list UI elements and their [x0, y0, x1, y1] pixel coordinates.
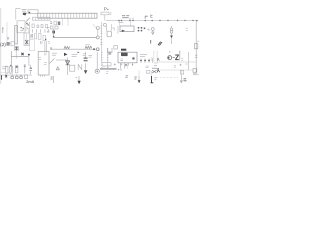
svg-text:(2): (2): [0, 42, 6, 48]
svg-text:2mA: 2mA: [26, 80, 34, 84]
svg-text:P: P: [104, 7, 107, 12]
